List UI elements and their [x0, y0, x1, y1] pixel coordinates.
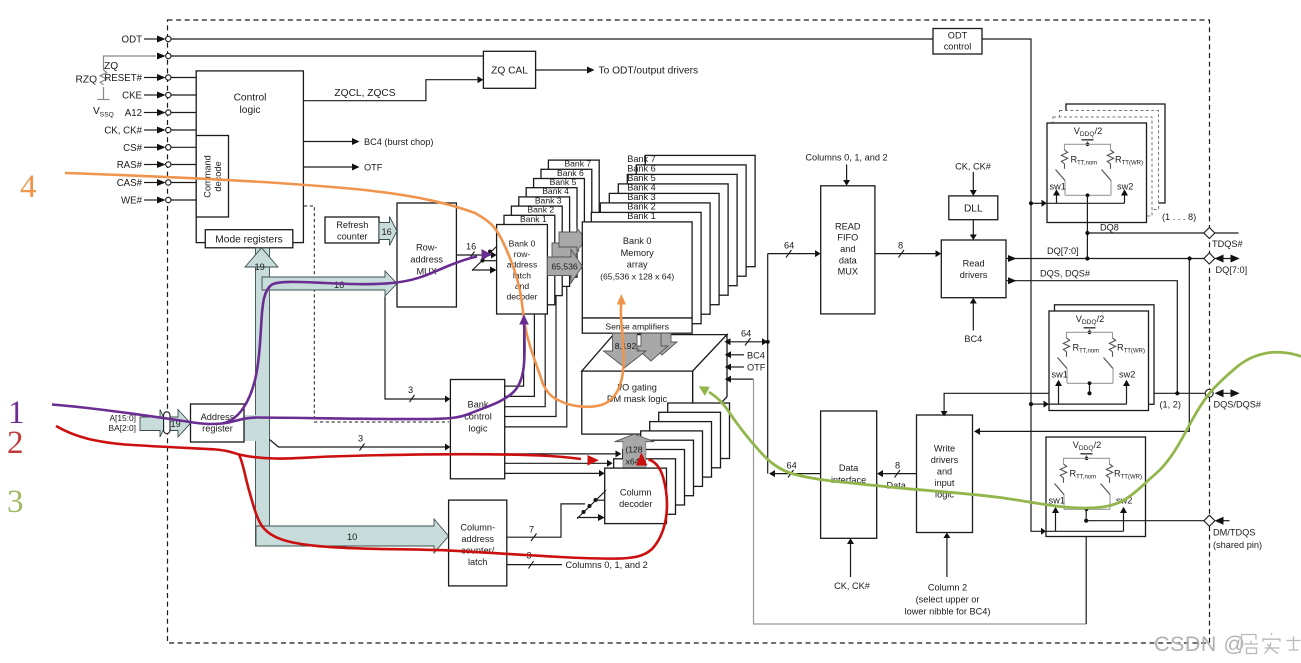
- svg-text:DQS/DQS#: DQS/DQS#: [1214, 400, 1262, 410]
- svg-text:drivers: drivers: [960, 270, 988, 280]
- wire stack2 node to DQS net: [1089, 384, 1091, 394]
- svg-text:2: 2: [7, 425, 24, 461]
- svg-text:8,192: 8,192: [615, 341, 637, 351]
- svg-text:DM/TDQS: DM/TDQS: [1213, 528, 1255, 538]
- Write drivers and input logic box: [917, 415, 973, 533]
- svg-text:TDQS#: TDQS#: [1212, 239, 1244, 249]
- svg-text:MUX: MUX: [838, 267, 858, 277]
- svg-text:Read: Read: [963, 259, 985, 269]
- svg-text:Columns 0, 1, and 2: Columns 0, 1, and 2: [805, 153, 887, 163]
- wire OTF: [303, 166, 353, 168]
- svg-text:BC4 (burst chop): BC4 (burst chop): [364, 137, 433, 147]
- svg-text:7: 7: [529, 525, 534, 535]
- svg-text:CAS#: CAS#: [117, 178, 143, 189]
- wire BC4 (burst chop): [303, 141, 353, 143]
- svg-text:READ: READ: [835, 221, 861, 231]
- node BC4 into read drivers: [972, 302, 974, 331]
- svg-text:(select upper or: (select upper or: [916, 595, 980, 605]
- bus 8,192 sense amps to I/O gating: [604, 333, 647, 367]
- svg-text:BA[2:0]: BA[2:0]: [109, 423, 136, 433]
- svg-text:OTF: OTF: [364, 163, 383, 173]
- wire 64 bidirectional I/O gating to bus: [728, 341, 764, 343]
- bus 8,192 mini arrows: [647, 333, 677, 355]
- wire ODT pin: [144, 38, 159, 40]
- curve 2 red branch to column decoder: [239, 454, 581, 459]
- curve 1 purple row path main: [52, 322, 525, 424]
- svg-text:(1, 2): (1, 2): [1160, 400, 1181, 410]
- wire 64 data interface to bus: [773, 473, 821, 475]
- svg-text:CK, CK#: CK, CK#: [834, 581, 871, 591]
- Bank control logic box: [450, 380, 504, 479]
- svg-text:(65,536 x 128 x 64): (65,536 x 128 x 64): [600, 271, 674, 281]
- node DQ[7:0] pin diamond + arrows: [1188, 256, 1192, 260]
- Data interface box: [821, 411, 877, 538]
- wire bank control to column decoder: [505, 472, 601, 474]
- svg-text:3: 3: [7, 484, 24, 520]
- wire sw enable stack2: [1029, 402, 1033, 406]
- svg-text:A12: A12: [125, 108, 142, 119]
- svg-text:array: array: [627, 260, 648, 270]
- svg-text:16: 16: [334, 280, 344, 290]
- svg-text:RAS#: RAS#: [117, 160, 143, 171]
- column decoder deck 7..1: [614, 403, 730, 514]
- svg-text:Memory: Memory: [621, 248, 655, 258]
- svg-text:3: 3: [358, 434, 363, 444]
- svg-text:DQ8: DQ8: [1100, 223, 1119, 233]
- svg-text:CK, CK#: CK, CK#: [104, 126, 142, 137]
- svg-text:and: and: [840, 244, 855, 254]
- svg-text:row-: row-: [514, 249, 531, 259]
- ODT termination circuit 2 (DQS) behind box: [1055, 305, 1155, 405]
- node TDQS# pin diamond: [1204, 227, 1215, 238]
- svg-text:ZQ CAL: ZQ CAL: [491, 66, 528, 77]
- bus 19-wide address channel (teal): [256, 248, 270, 546]
- Command decode box: [196, 136, 228, 218]
- wire DQ8 from stack1 to TDQS# pin: [1086, 196, 1088, 259]
- wire ODT control to termination switches: [982, 39, 1043, 531]
- svg-text:control: control: [944, 42, 972, 52]
- wire 8 READ FIFO to read drivers: [875, 253, 937, 255]
- svg-text:CS#: CS#: [123, 143, 142, 154]
- svg-text:drivers: drivers: [931, 455, 959, 465]
- svg-text:DQ[7:0]: DQ[7:0]: [1216, 265, 1248, 275]
- svg-text:64: 64: [784, 241, 794, 251]
- wire ZQ to ZQ CAL: [171, 55, 483, 57]
- svg-text:Control: Control: [234, 93, 267, 104]
- svg-text:CSDN @: CSDN @: [1154, 632, 1246, 656]
- svg-text:ODT: ODT: [948, 31, 968, 41]
- svg-text:data: data: [839, 255, 858, 265]
- wire 7 column address to column decoder: [507, 504, 585, 537]
- bus 65,536 mini arrows (stacked): [552, 239, 579, 262]
- svg-text:Bank 3: Bank 3: [627, 192, 656, 202]
- svg-text:DQ[7:0]: DQ[7:0]: [1047, 246, 1079, 256]
- wire ODT to ODT control: [171, 38, 933, 40]
- svg-text:16: 16: [382, 227, 392, 237]
- wire 16 row MUX to bank0 decoder with fan: [456, 254, 493, 256]
- wire 64 bus to READ FIFO: [768, 253, 817, 255]
- svg-text:Bank 7: Bank 7: [627, 154, 656, 164]
- Control logic box: [196, 71, 303, 243]
- svg-text:CKE: CKE: [122, 91, 142, 102]
- ODT termination circuit 3 (DM): [1046, 437, 1146, 537]
- wire 3 address register to bank control (lower): [270, 440, 447, 448]
- wire DLL to read drivers: [972, 220, 974, 236]
- Address register box: [191, 404, 245, 442]
- curve 4 orange activate path: [65, 173, 624, 407]
- wire 3 bank-address to bank control (upper): [385, 297, 447, 400]
- wire 64 data bus vertical: [767, 254, 769, 474]
- svg-text:8: 8: [898, 241, 903, 251]
- svg-text:Bank 0: Bank 0: [509, 239, 536, 249]
- svg-text:counter: counter: [337, 232, 368, 242]
- svg-text:decode: decode: [213, 161, 223, 191]
- outer dashed DRAM boundary: [168, 20, 1210, 643]
- svg-text:RZQ: RZQ: [75, 75, 97, 86]
- node DQS/DQS# pin connector + arrows: [1205, 389, 1213, 397]
- wire bank select fan to row decoders: [505, 305, 524, 386]
- input pin wires with arrows into boundary: [144, 74, 196, 204]
- wire OTF into I/O gating: [729, 366, 744, 368]
- wire DQ[7:0] read drivers to pin: [1006, 258, 1205, 260]
- Column decoder box: [605, 468, 667, 523]
- svg-text:WE#: WE#: [121, 196, 143, 207]
- wire DQS,DQS# read drivers down: [1006, 281, 1177, 394]
- bus 10 to column-address counter (teal): [256, 519, 449, 553]
- bus (128 x64) I/O gating to column decoder: [615, 434, 655, 468]
- I/O gating front face: [582, 371, 693, 434]
- svg-text:8: 8: [895, 461, 900, 471]
- svg-text:DLL: DLL: [964, 204, 983, 215]
- wire into column decoder deck (from bank control stack): [505, 453, 617, 455]
- curve 1 purple branch to row MUX output: [222, 257, 477, 424]
- svg-text:and: and: [937, 467, 952, 477]
- curve 3 green write path: [709, 352, 1301, 508]
- wire To ODT/output drivers: [536, 69, 589, 71]
- svg-text:Command: Command: [203, 155, 213, 197]
- svg-text:Bank 5: Bank 5: [627, 173, 656, 183]
- svg-text:latch: latch: [468, 557, 487, 567]
- svg-text:Bank 2: Bank 2: [627, 201, 656, 211]
- bus 16 to row-address MUX (teal): [262, 271, 397, 296]
- wire 8/Data write drivers to data interface: [881, 473, 917, 475]
- svg-text:To ODT/output drivers: To ODT/output drivers: [599, 66, 699, 77]
- svg-text:logic: logic: [469, 424, 488, 434]
- Refresh counter box: [325, 217, 379, 243]
- node CK,CK# into data interface: [850, 543, 852, 578]
- svg-text:Row-: Row-: [416, 243, 437, 253]
- I/O gating right face: [693, 335, 727, 435]
- svg-text:ZQCL, ZQCS: ZQCL, ZQCS: [334, 88, 395, 99]
- pin circles on boundary: [166, 36, 171, 202]
- Bank 0 memory array box: [582, 222, 692, 318]
- svg-text:Refresh: Refresh: [336, 220, 368, 230]
- wire DQS/DQS# net: [944, 393, 1205, 412]
- svg-text:Write: Write: [934, 444, 955, 454]
- svg-text:10: 10: [347, 532, 357, 542]
- svg-text:OTF: OTF: [747, 363, 766, 373]
- svg-text:Bank 4: Bank 4: [627, 182, 656, 192]
- svg-text:decoder: decoder: [619, 499, 652, 509]
- svg-text:address: address: [410, 255, 443, 265]
- svg-text:Column-: Column-: [460, 523, 495, 533]
- wire ZQCL,ZQCS control logic to ZQ CAL: [303, 80, 479, 101]
- svg-text:19: 19: [255, 262, 265, 272]
- ODT control box: [933, 29, 982, 55]
- wire DQ write path to write drivers: [978, 259, 1189, 432]
- svg-text:Bank 0: Bank 0: [623, 236, 652, 246]
- Column-address counter/latch box: [449, 500, 507, 586]
- node Column 2 select into write drivers: [946, 537, 948, 578]
- wire DM mask path from DM/TDQS pin: [729, 378, 754, 380]
- svg-text:Bank 1: Bank 1: [627, 211, 656, 221]
- ZQ CAL box: [483, 51, 535, 88]
- DLL box: [949, 196, 998, 220]
- svg-text:CK, CK#: CK, CK#: [955, 162, 992, 172]
- svg-text:lower nibble for BC4): lower nibble for BC4): [905, 607, 991, 617]
- wire sw enable stack1: [1029, 201, 1033, 205]
- bus x64 mini arrows behind column deck: [646, 438, 660, 468]
- svg-text:64: 64: [787, 461, 797, 471]
- svg-text:ODT: ODT: [122, 35, 143, 46]
- row-address decoder deck Bank 7..1: [504, 159, 599, 305]
- resistor RZQ circuit (ZQ pin): [98, 56, 157, 100]
- svg-text:Mode registers: Mode registers: [215, 235, 282, 246]
- svg-text:BC4: BC4: [747, 351, 765, 361]
- svg-text:4: 4: [20, 169, 37, 205]
- svg-text:Bank 1: Bank 1: [520, 214, 547, 224]
- svg-text:RESET#: RESET#: [104, 73, 142, 84]
- wire sw enable stack3: [1046, 530, 1124, 532]
- I/O gating DM mask logic 3D slab top face: [582, 335, 727, 372]
- bus teal bridge from address register: [244, 415, 256, 441]
- svg-text:logic: logic: [240, 105, 261, 116]
- Sense amplifiers strip: [582, 318, 692, 333]
- svg-text:Data: Data: [839, 463, 859, 473]
- bus 65,536 row decoder to memory array: [547, 250, 582, 284]
- Row-address MUX box: [397, 203, 456, 307]
- wire DM/TDQS net: [1085, 510, 1087, 521]
- svg-text:DQS, DQS#: DQS, DQS#: [1040, 268, 1091, 278]
- READ FIFO and data MUX box: [821, 186, 875, 314]
- svg-text:(128: (128: [625, 445, 642, 455]
- ODT termination circuit 1 (DQ8/TDQS): [1047, 123, 1147, 223]
- svg-text:input: input: [935, 478, 955, 488]
- svg-text:Columns 0, 1, and 2: Columns 0, 1, and 2: [566, 560, 648, 570]
- svg-text:Column: Column: [620, 488, 652, 498]
- Mode registers box: [205, 230, 292, 248]
- svg-text:3: 3: [408, 385, 413, 395]
- dashed wire control logic to bank control: [304, 206, 449, 422]
- bus 16 refresh counter to row MUX (teal): [379, 217, 397, 246]
- svg-text:Bank 6: Bank 6: [627, 163, 656, 173]
- svg-text:FIFO: FIFO: [837, 233, 858, 243]
- wire BC4 into I/O gating: [729, 354, 744, 356]
- stack1 termination behind boxes: [1066, 104, 1165, 203]
- svg-text:64: 64: [741, 329, 751, 339]
- memory array deck Bank 7..1: [591, 154, 755, 324]
- svg-text:ZQ: ZQ: [104, 61, 118, 72]
- watermark chinese glyphs: [1240, 633, 1301, 654]
- svg-text:address: address: [461, 534, 494, 544]
- svg-text:65,536: 65,536: [551, 262, 578, 272]
- curve 2 red column path main: [56, 426, 667, 559]
- svg-text:16: 16: [466, 242, 476, 252]
- Bank 0 row-address latch and decoder box: [497, 225, 548, 315]
- svg-text:(shared pin): (shared pin): [1213, 540, 1262, 550]
- Read drivers box: [941, 240, 1006, 298]
- svg-text:Sense amplifiers: Sense amplifiers: [605, 322, 669, 332]
- svg-text:I/O gating: I/O gating: [617, 383, 657, 393]
- svg-text:BC4: BC4: [964, 334, 982, 344]
- svg-text:(1 . . . 8): (1 . . . 8): [1162, 212, 1196, 222]
- svg-text:Column 2: Column 2: [928, 583, 967, 593]
- wire Columns 0,1,and 2 output: [507, 564, 562, 566]
